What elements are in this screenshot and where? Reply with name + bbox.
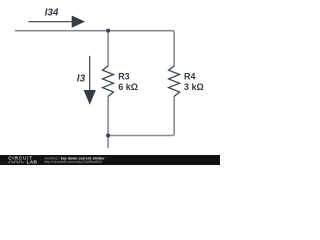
footer black banner [0,155,220,165]
current arrow I3 shaft [89,56,91,90]
svg-text:6 kΩ: 6 kΩ [118,82,138,92]
current arrow I34 shaft [29,21,73,23]
wire: top horizontal from left end to top-right corner, down to R4 top [16,31,175,66]
wire: R3 bottom lead down to bottom wire [107,96,109,135]
node B junction dot [106,134,110,138]
resistor R4 zigzag body [169,66,180,97]
svg-text:R4: R4 [184,72,196,82]
current arrow I34 head [72,16,85,28]
svg-text:I3: I3 [77,74,86,85]
node A junction dot [106,29,110,33]
wire: bottom horizontal from node B to bottom-right corner, up to R4 bottom [108,96,174,135]
svg-text:http://circuitlab.com/c/wp2/3a: http://circuitlab.com/c/wp2/3af5ba8f64 [45,160,102,164]
svg-text:R3: R3 [118,71,130,81]
svg-text:3 kΩ: 3 kΩ [184,82,204,92]
CircuitLab logo square-wave trace [8,161,24,163]
svg-text:LAB: LAB [27,160,38,165]
wire: stub going down from node B (cropped at footer) [107,136,109,148]
svg-text:I34: I34 [45,8,59,19]
wire: node A vertical from top wire down to R3 top [107,31,109,66]
resistor R3 zigzag body [103,66,114,97]
current arrow I3 head [84,90,96,105]
